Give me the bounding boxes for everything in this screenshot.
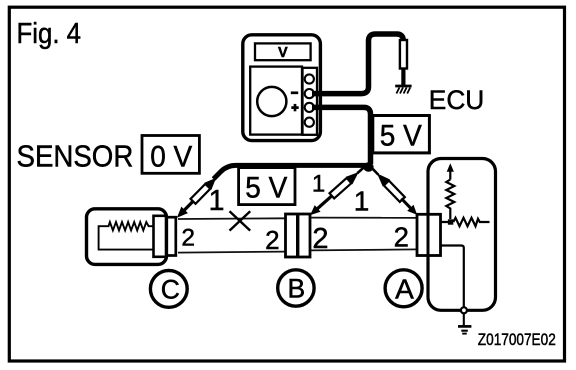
wire: junction to sensor-side probe C <box>214 165 369 179</box>
svg-text:1: 1 <box>209 185 225 217</box>
multimeter dial <box>257 87 286 116</box>
ground symbol (top right) <box>395 86 411 94</box>
5 V box (middle) <box>239 168 295 205</box>
svg-text:Fig. 4: Fig. 4 <box>17 18 82 50</box>
minus sign <box>291 91 298 94</box>
connector C front bar <box>154 216 167 257</box>
connector A <box>417 214 441 255</box>
multimeter display <box>255 43 311 60</box>
svg-text:0 V: 0 V <box>150 141 192 174</box>
0 V box <box>142 136 199 174</box>
node circle on ECU box edge <box>461 307 467 313</box>
svg-text:V: V <box>278 45 288 61</box>
junction blob <box>363 162 373 172</box>
5 V box (upper, at ECU) <box>373 116 430 153</box>
wire connector A to ECU ground <box>441 246 464 308</box>
svg-text:A: A <box>395 274 414 305</box>
svg-text:5 V: 5 V <box>380 120 422 153</box>
node A circle <box>385 270 422 307</box>
svg-text:2: 2 <box>181 225 195 252</box>
harness wire B-A top <box>310 217 417 219</box>
wire: meter plus lead down to probes junction <box>312 107 371 164</box>
probe at connector A <box>366 162 421 218</box>
junction dot <box>448 219 453 224</box>
connector B <box>286 214 311 257</box>
svg-text:2: 2 <box>265 225 279 255</box>
svg-text:5 V: 5 V <box>245 172 287 205</box>
harness wire C-B bottom <box>178 252 286 253</box>
ground probe body <box>400 40 407 69</box>
terminal circle 1 <box>305 74 314 83</box>
ground symbol (bottom) <box>458 313 471 333</box>
terminal circle 3 <box>305 103 314 112</box>
wire: meter minus lead to ground probe <box>312 34 403 94</box>
connector C back bar <box>167 217 176 255</box>
harness wire C-B top <box>178 217 286 220</box>
plus sign <box>291 104 298 111</box>
ground probe tip <box>401 69 405 86</box>
svg-text:1: 1 <box>312 171 325 198</box>
svg-text:2: 2 <box>394 222 409 253</box>
probe at connector C <box>173 174 219 221</box>
node C circle <box>150 271 187 308</box>
probe at connector B <box>307 161 370 219</box>
svg-text:ECU: ECU <box>429 85 485 115</box>
svg-text:Z017007E02: Z017007E02 <box>478 330 556 349</box>
ECU component box <box>428 159 496 311</box>
sensor box <box>87 209 167 265</box>
sensor internal resistor loop <box>99 222 153 250</box>
svg-text:2: 2 <box>312 223 328 255</box>
ECU internal horizontal resistor <box>441 218 490 226</box>
terminal circle 2 <box>305 89 314 98</box>
ECU internal up-arrow <box>449 171 451 180</box>
svg-text:SENSOR: SENSOR <box>17 139 134 174</box>
terminal circle 4 <box>305 118 314 127</box>
multimeter terminal column <box>303 68 318 135</box>
ECU internal vertical resistor <box>446 180 454 220</box>
node B circle <box>278 270 314 306</box>
multimeter body <box>243 35 321 141</box>
open-circuit X mark <box>230 211 251 230</box>
svg-text:B: B <box>287 273 305 303</box>
svg-text:1: 1 <box>354 186 370 217</box>
harness wire B-A bottom <box>310 249 417 250</box>
svg-text:C: C <box>161 274 180 304</box>
multimeter dial panel <box>250 67 302 135</box>
